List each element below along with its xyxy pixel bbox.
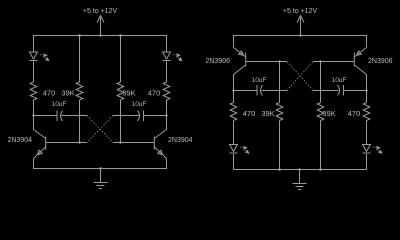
wire base Q1 <box>46 142 87 144</box>
wire base4 net-R7 (leg3 right) <box>320 62 322 103</box>
svg-text:2N3904: 2N3904 <box>168 137 193 144</box>
transistor Q3 2N3906 <box>245 53 247 67</box>
wire collector3-C3 <box>234 90 258 92</box>
svg-text:10uF: 10uF <box>52 101 67 108</box>
svg-text:+5 to +12V: +5 to +12V <box>83 8 118 15</box>
wire bottom rail (left) <box>34 159 167 169</box>
power arrow up (left circuit) <box>100 17 102 36</box>
ground (right) <box>299 170 301 184</box>
wire C2-crossB <box>113 115 139 117</box>
svg-text:39K: 39K <box>322 109 335 118</box>
wire R7-rail <box>320 121 322 170</box>
svg-text:39K: 39K <box>122 89 135 98</box>
capacitor C4 <box>343 85 345 96</box>
svg-text:470: 470 <box>148 89 161 98</box>
wire cross C2-to-base1 <box>87 116 113 143</box>
wire base3 net-R6 (leg2 right) <box>279 62 281 103</box>
wire R5-D3 <box>233 121 235 145</box>
resistor R4 <box>163 82 170 100</box>
junction dot R6-base3 <box>278 60 280 62</box>
resistor R5 <box>230 103 237 121</box>
junction dot leg4-C2 node <box>165 114 167 116</box>
svg-text:10uF: 10uF <box>252 77 267 84</box>
wire C1-crossA <box>62 115 88 117</box>
junction dot rail-R7 (right) <box>319 168 322 171</box>
wire leg1 node-collector Q1 <box>33 116 35 130</box>
junction dot leg1-C3 node <box>232 89 234 91</box>
resistor R6 <box>276 103 283 121</box>
ground (left) <box>100 169 102 183</box>
wire top rail (left) <box>34 36 167 53</box>
wire bottom rail (right) <box>234 169 367 171</box>
capacitor C2 <box>143 111 145 122</box>
wire collector Q3 leg <box>233 75 235 103</box>
junction dot leg4-C4 node <box>365 89 367 91</box>
svg-text:2N3906: 2N3906 <box>205 58 230 65</box>
wire rail-R3 (leg3) <box>120 36 122 83</box>
junction dot rail-power (right) <box>299 34 301 36</box>
resistor R2 <box>76 82 83 100</box>
wire D3-rail <box>233 154 235 170</box>
wire collector Q4 leg <box>366 75 368 103</box>
wire D4-rail <box>366 154 368 170</box>
wire leg1-C1 <box>34 115 58 117</box>
capacitor C1 <box>56 111 58 122</box>
transistor Q1 2N3904 <box>45 137 47 150</box>
transistor Q2 2N3904 <box>153 137 155 150</box>
junction dot rail-R6 (right) <box>278 168 281 171</box>
LED D2 <box>163 52 171 59</box>
wire base Q3 <box>246 61 287 63</box>
LED D3 <box>230 145 238 152</box>
transistor Q4 2N3906 <box>353 53 355 67</box>
power arrow up (right circuit) <box>300 17 302 36</box>
svg-text:39K: 39K <box>61 89 74 98</box>
svg-text:+5 to +12V: +5 to +12V <box>283 8 318 15</box>
capacitor C3 <box>256 85 258 96</box>
wire C3-crossA (right) <box>262 90 288 92</box>
wire rail-R2 (leg2) <box>79 36 81 83</box>
wire leg4 node-collector Q2 <box>166 116 168 130</box>
resistor R3 <box>117 82 124 100</box>
wire top rail (right) <box>234 36 367 48</box>
junction dot rail-R3 (left) <box>119 34 122 37</box>
resistor R7 <box>317 103 324 121</box>
svg-text:10uF: 10uF <box>332 77 347 84</box>
wire collector4-C4 <box>344 90 367 92</box>
wire cross C1-to-base2 <box>87 116 113 143</box>
wire base Q4 <box>313 61 354 63</box>
resistor R1 <box>30 82 37 100</box>
svg-text:2N3906: 2N3906 <box>368 58 393 65</box>
wire R4-node (leg4) <box>166 100 168 116</box>
svg-text:470: 470 <box>43 89 56 98</box>
svg-text:2N3904: 2N3904 <box>7 137 32 144</box>
junction dot ground tap (left) <box>99 167 102 170</box>
wire leg4-C2 <box>144 115 167 117</box>
wire R8-D4 <box>366 121 368 145</box>
wire R2-base1 (leg2 lower) <box>79 100 81 143</box>
junction dot R7-base4 <box>319 60 321 62</box>
wire R3-base2 (leg3 lower) <box>120 100 122 143</box>
junction dot R3-base2 <box>119 141 121 143</box>
wire R1-node (leg1) <box>33 100 35 116</box>
junction dot leg1-C1 node <box>32 114 34 116</box>
wire base Q2 <box>113 142 154 144</box>
junction dot R2-base1 <box>78 141 80 143</box>
junction dot rail-power (left) <box>99 34 101 36</box>
wire D2-R4 <box>166 62 168 83</box>
wire D1-R1 <box>33 62 35 83</box>
resistor R8 <box>363 103 370 121</box>
svg-text:10uF: 10uF <box>132 101 147 108</box>
svg-text:39K: 39K <box>261 109 274 118</box>
LED D1 <box>30 52 38 59</box>
wire cross C4-to-base3 <box>287 62 313 91</box>
junction dot rail-R2 (left) <box>78 34 81 37</box>
LED D4 <box>363 145 371 152</box>
wire cross C3-to-base4 <box>287 62 313 91</box>
junction dot ground tap (right) <box>298 168 300 170</box>
wire C4-crossB (right) <box>313 90 339 92</box>
svg-text:470: 470 <box>243 109 256 118</box>
wire R6-rail <box>279 121 281 170</box>
svg-text:470: 470 <box>348 109 361 118</box>
